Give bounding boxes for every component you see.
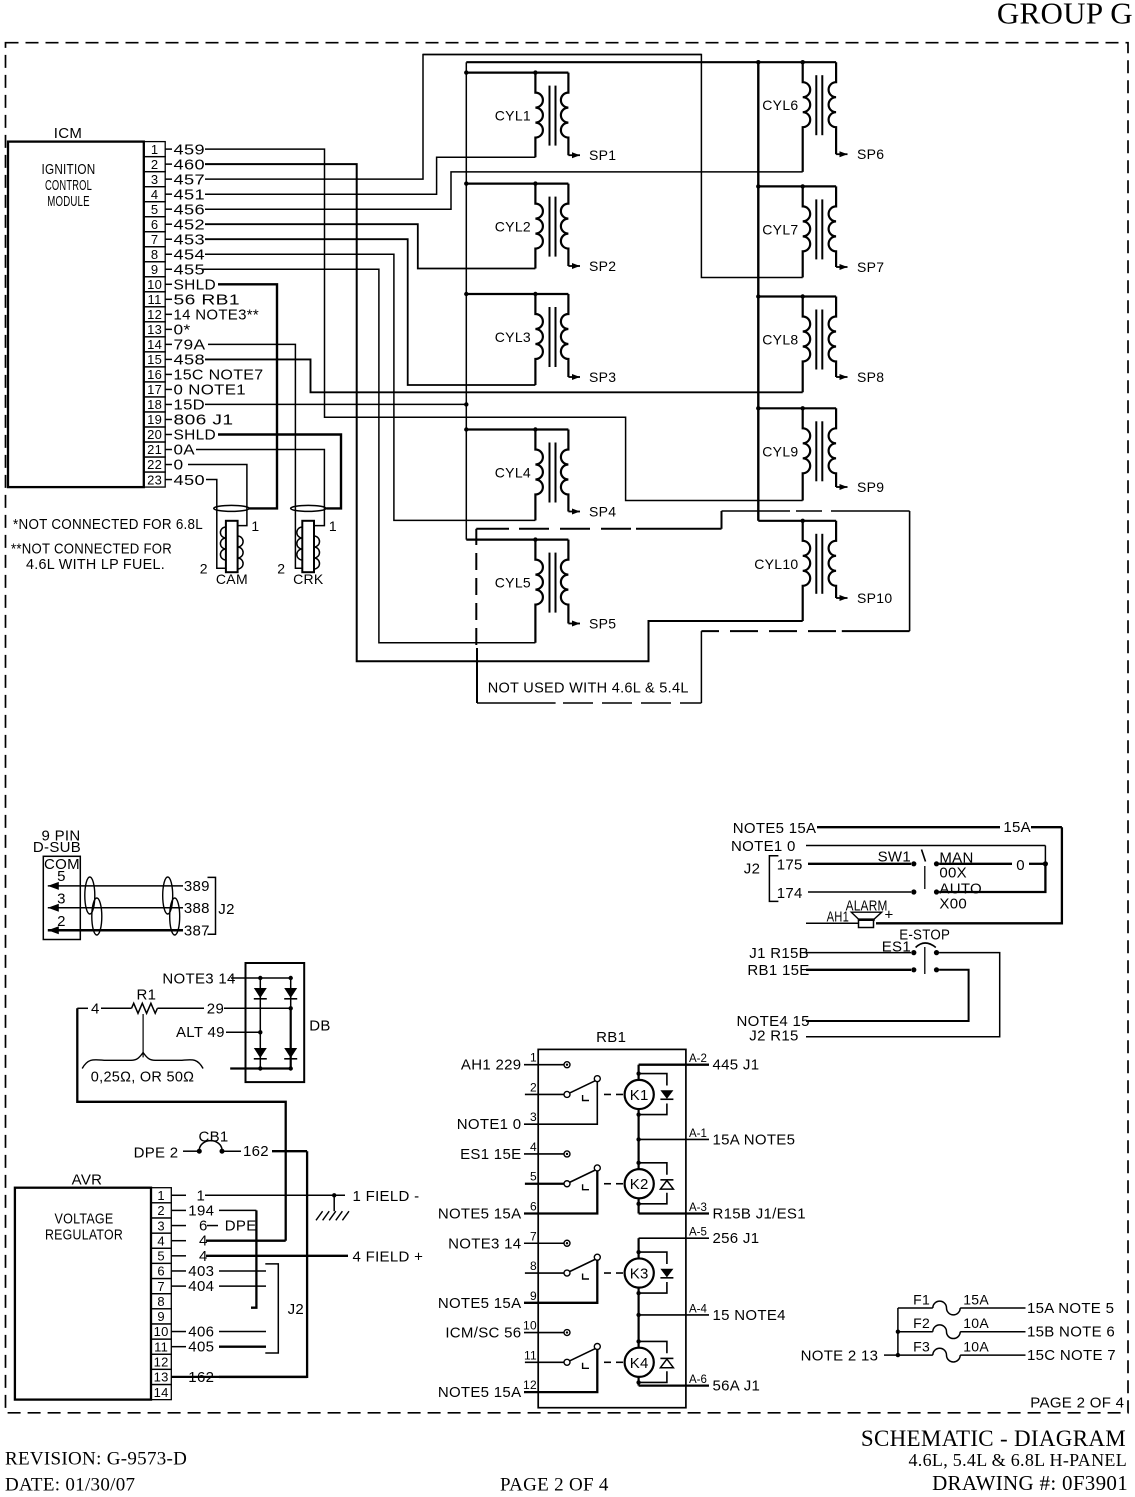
svg-text:PAGE 2 OF 4: PAGE 2 OF 4 bbox=[500, 1475, 609, 1496]
svg-text:A-5: A-5 bbox=[689, 1227, 707, 1239]
svg-text:11: 11 bbox=[154, 1339, 168, 1354]
voltage regulator AVR bbox=[15, 1172, 151, 1400]
svg-text:10: 10 bbox=[523, 1319, 537, 1333]
wire D-SUB 389 bbox=[48, 878, 210, 895]
ignition coil CYL3 bbox=[464, 292, 568, 385]
wire AVR 4 (to R1) bbox=[199, 1233, 286, 1250]
CRK sensor bbox=[277, 505, 337, 586]
svg-text:RB1: RB1 bbox=[596, 1029, 626, 1046]
svg-text:A-4: A-4 bbox=[689, 1303, 708, 1315]
wire AVR 4 FIELD + bbox=[199, 1248, 423, 1266]
flyback diode K2 bbox=[636, 1161, 673, 1206]
ICM pin 16 wire 15C NOTE7 bbox=[144, 367, 264, 384]
svg-text:SP5: SP5 bbox=[589, 616, 616, 632]
svg-text:5: 5 bbox=[157, 1249, 165, 1264]
flyback diode K4 bbox=[636, 1339, 673, 1384]
fuse F3 10A bbox=[898, 1339, 1116, 1364]
svg-text:8: 8 bbox=[530, 1259, 537, 1273]
ICM pin 13 wire 0* bbox=[144, 322, 191, 339]
svg-text:4: 4 bbox=[157, 1233, 165, 1248]
svg-text:NOTE5 15A: NOTE5 15A bbox=[733, 820, 817, 837]
relay contact K4 (pins 11/12) bbox=[523, 1344, 623, 1393]
wire RB1 bus K1/K2 bbox=[636, 1065, 640, 1214]
fuse F2 10A bbox=[898, 1315, 1115, 1340]
diode DB lower-right bbox=[284, 1048, 297, 1058]
wire RB1 bus K3/K4 bbox=[636, 1238, 640, 1385]
ICM pin 21 wire 0A bbox=[144, 442, 324, 526]
svg-text:9: 9 bbox=[157, 1309, 165, 1324]
svg-text:15: 15 bbox=[147, 352, 162, 367]
svg-text:K4: K4 bbox=[630, 1355, 649, 1372]
svg-text:404: 404 bbox=[188, 1278, 214, 1295]
switch SW1 bbox=[878, 849, 982, 913]
spark plug output SP9 bbox=[836, 479, 884, 495]
svg-text:SP3: SP3 bbox=[589, 369, 616, 385]
CAM sensor bbox=[200, 505, 260, 586]
svg-text:10: 10 bbox=[154, 1324, 169, 1339]
spark plug output SP1 bbox=[568, 147, 616, 163]
svg-text:8: 8 bbox=[151, 247, 159, 262]
svg-text:15B NOTE 6: 15B NOTE 6 bbox=[1027, 1324, 1115, 1341]
connector 9-pin D-SUB bbox=[33, 827, 81, 939]
svg-text:CYL10: CYL10 bbox=[754, 556, 798, 572]
spark plug output SP4 bbox=[568, 504, 616, 520]
alarm AH1 bbox=[806, 898, 894, 928]
ICM pin 22 wire 0 bbox=[144, 457, 247, 526]
svg-text:162: 162 bbox=[243, 1143, 269, 1160]
wire AVR 6 DPE bbox=[199, 1218, 257, 1235]
wire J2 174 to SW1 bbox=[777, 885, 911, 902]
relay board RB1 bbox=[538, 1029, 686, 1408]
spark plug output SP8 bbox=[836, 369, 884, 385]
svg-text:00X: 00X bbox=[939, 864, 967, 881]
svg-text:R15B J1/ES1: R15B J1/ES1 bbox=[713, 1206, 806, 1223]
relay contact K2 (pins 5/6) bbox=[524, 1165, 623, 1214]
spark plug output SP5 bbox=[568, 616, 616, 632]
wire D-SUB 387 bbox=[48, 922, 210, 939]
svg-text:J2: J2 bbox=[744, 861, 760, 878]
svg-text:X00: X00 bbox=[939, 895, 967, 912]
svg-text:K2: K2 bbox=[630, 1176, 649, 1193]
AVR pin 14 bbox=[151, 1385, 171, 1400]
spark plug output SP10 bbox=[836, 590, 892, 606]
svg-text:CYL5: CYL5 bbox=[495, 575, 531, 591]
wire NOTE 2 13 feed bbox=[801, 1308, 901, 1364]
svg-text:445 J1: 445 J1 bbox=[713, 1057, 760, 1074]
wire J2 175 to SW1 bbox=[777, 857, 911, 874]
svg-text:J2: J2 bbox=[288, 1301, 304, 1318]
svg-text:3: 3 bbox=[530, 1110, 537, 1124]
svg-text:J2: J2 bbox=[218, 901, 234, 918]
AVR pin 10 wire 406 bbox=[151, 1324, 186, 1339]
svg-text:6: 6 bbox=[157, 1264, 165, 1279]
svg-text:162: 162 bbox=[188, 1369, 214, 1386]
svg-text:REGULATOR: REGULATOR bbox=[45, 1226, 123, 1243]
svg-text:4: 4 bbox=[151, 187, 159, 202]
svg-text:NOTE1 0: NOTE1 0 bbox=[731, 838, 796, 855]
ICM pin 15 wire 458 bbox=[144, 352, 803, 393]
wire ALT 49 bbox=[176, 1024, 262, 1041]
svg-text:NOTE3 14: NOTE3 14 bbox=[448, 1235, 521, 1252]
svg-text:13: 13 bbox=[147, 322, 162, 337]
ignition coil CYL1 bbox=[464, 70, 568, 157]
AVR pin 3 wire 6 bbox=[151, 1218, 186, 1233]
emergency stop ES1 bbox=[882, 926, 950, 974]
ICM pin 18 wire 15D bbox=[144, 397, 466, 414]
svg-text:SP8: SP8 bbox=[857, 369, 884, 385]
AVR pin 5 wire 4 bbox=[151, 1248, 186, 1263]
svg-text:1: 1 bbox=[151, 142, 159, 157]
AVR pin 1 wire 1 bbox=[151, 1188, 186, 1203]
ICM pin 19 wire 806 J1 bbox=[144, 412, 234, 429]
node 15D junction on coil bus bbox=[464, 402, 468, 406]
wire AVR 403 to J2 bbox=[188, 1263, 266, 1280]
svg-text:175: 175 bbox=[777, 857, 803, 874]
svg-text:CYL8: CYL8 bbox=[762, 332, 798, 348]
svg-text:DPE 2: DPE 2 bbox=[134, 1145, 179, 1162]
svg-text:0: 0 bbox=[1016, 857, 1025, 874]
ICM pin 20 wire SHLD bbox=[144, 427, 341, 509]
svg-text:K1: K1 bbox=[630, 1087, 649, 1104]
diode DB lower-left bbox=[254, 1048, 267, 1058]
svg-text:256 J1: 256 J1 bbox=[713, 1230, 760, 1247]
ignition coil CYL8 bbox=[756, 294, 836, 392]
wire top feed bus 457 bbox=[423, 54, 701, 56]
svg-text:J1 R15B: J1 R15B bbox=[749, 945, 809, 962]
RB1 pin 10 terminal bbox=[523, 1319, 570, 1336]
wire left coil bus bbox=[465, 62, 467, 539]
svg-text:12: 12 bbox=[154, 1355, 169, 1370]
svg-text:12: 12 bbox=[147, 307, 162, 322]
wire AVR 406 to J2 bbox=[188, 1324, 266, 1341]
fuse F1 15A bbox=[898, 1292, 1114, 1317]
svg-text:4 FIELD +: 4 FIELD + bbox=[353, 1248, 424, 1265]
svg-text:GROUP G: GROUP G bbox=[997, 0, 1133, 31]
ICM pin 6 wire 452 bbox=[144, 216, 535, 268]
svg-text:F1: F1 bbox=[913, 1292, 930, 1308]
ICM pin 12 wire 14 NOTE3** bbox=[144, 307, 259, 324]
svg-text:CAM: CAM bbox=[216, 571, 248, 587]
svg-text:3: 3 bbox=[151, 172, 159, 187]
svg-text:174: 174 bbox=[777, 885, 803, 902]
wire 4 to AVR pin 4 bbox=[77, 1008, 285, 1240]
svg-text:SCHEMATIC - DIAGRAM: SCHEMATIC - DIAGRAM bbox=[861, 1426, 1126, 1451]
wire AVR 162 bbox=[188, 1369, 307, 1386]
svg-text:6: 6 bbox=[151, 217, 159, 232]
svg-text:11: 11 bbox=[148, 292, 162, 307]
RB1 pin 1 terminal bbox=[524, 1051, 570, 1068]
RB1 terminal A-5 256 J1 bbox=[639, 1227, 760, 1248]
svg-text:7: 7 bbox=[151, 232, 159, 247]
svg-text:15C NOTE 7: 15C NOTE 7 bbox=[1027, 1347, 1116, 1364]
svg-text:8: 8 bbox=[157, 1294, 165, 1309]
brace 0.25 ohm or 50 ohm bbox=[82, 1053, 203, 1086]
connector J2 bracket (AVR) bbox=[265, 1264, 304, 1353]
svg-text:SP4: SP4 bbox=[589, 504, 616, 520]
AVR pin 6 wire 403 bbox=[151, 1263, 186, 1278]
svg-text:9: 9 bbox=[151, 262, 159, 277]
svg-text:11: 11 bbox=[524, 1348, 537, 1362]
svg-text:NOTE5 15A: NOTE5 15A bbox=[438, 1206, 522, 1223]
svg-text:SP9: SP9 bbox=[857, 479, 884, 495]
RB1 pin 4 terminal bbox=[524, 1140, 570, 1157]
svg-text:R1: R1 bbox=[137, 987, 157, 1004]
svg-text:+: + bbox=[885, 907, 894, 924]
svg-text:18: 18 bbox=[147, 397, 162, 412]
svg-text:7: 7 bbox=[530, 1229, 537, 1243]
svg-text:CYL1: CYL1 bbox=[495, 108, 531, 124]
svg-text:15 NOTE4: 15 NOTE4 bbox=[713, 1307, 786, 1324]
flyback diode K3 bbox=[636, 1250, 673, 1295]
svg-text:CYL3: CYL3 bbox=[495, 329, 531, 345]
svg-text:2: 2 bbox=[151, 157, 159, 172]
wire AVR 404 to J2 bbox=[188, 1278, 266, 1295]
svg-text:9: 9 bbox=[530, 1289, 537, 1303]
AVR pin 12 bbox=[151, 1354, 171, 1369]
svg-text:7: 7 bbox=[157, 1279, 165, 1294]
svg-text:13: 13 bbox=[154, 1370, 169, 1385]
svg-text:DPE: DPE bbox=[225, 1218, 257, 1235]
RB1 pin 7 terminal bbox=[524, 1229, 570, 1246]
diode DB upper-right bbox=[284, 988, 297, 998]
svg-text:DB: DB bbox=[309, 1018, 330, 1035]
svg-text:4: 4 bbox=[530, 1140, 537, 1154]
svg-text:SW1: SW1 bbox=[878, 849, 911, 866]
svg-text:15A NOTE 5: 15A NOTE 5 bbox=[1027, 1300, 1114, 1317]
wire D-SUB 388 bbox=[48, 900, 210, 917]
wire right coil bus bbox=[757, 62, 759, 521]
svg-text:DRAWING #: 0F3901: DRAWING #: 0F3901 bbox=[932, 1471, 1128, 1495]
svg-text:1: 1 bbox=[329, 518, 337, 534]
node right bus / CYL6 top junction bbox=[756, 60, 760, 64]
dashed boundary: not used with 4.6L/5.4L region bbox=[476, 511, 909, 703]
AVR pin 13 wire 162 bbox=[151, 1369, 186, 1384]
ICM pin 14 wire 79A bbox=[144, 337, 302, 569]
svg-text:NOT USED WITH 4.6L & 5.4L: NOT USED WITH 4.6L & 5.4L bbox=[488, 680, 689, 697]
svg-text:A-2: A-2 bbox=[689, 1053, 707, 1065]
svg-text:AH1 229: AH1 229 bbox=[461, 1057, 521, 1074]
svg-text:J2 R15: J2 R15 bbox=[749, 1028, 798, 1045]
spark plug output SP2 bbox=[568, 258, 616, 274]
wire AVR 405 to J2 bbox=[188, 1339, 266, 1356]
ignition coil CYL2 bbox=[464, 181, 568, 268]
svg-text:A-3: A-3 bbox=[689, 1202, 707, 1214]
relay contact K3 (pins 8/9) bbox=[524, 1254, 623, 1303]
svg-text:PAGE 2 OF 4: PAGE 2 OF 4 bbox=[1030, 1395, 1124, 1412]
flyback diode K1 bbox=[636, 1071, 673, 1116]
svg-text:1: 1 bbox=[251, 518, 259, 534]
svg-text:IGNITION: IGNITION bbox=[42, 161, 96, 178]
title block bbox=[5, 1426, 1128, 1496]
ignition coil CYL4 bbox=[464, 427, 568, 520]
svg-text:**NOT CONNECTED FOR: **NOT CONNECTED FOR bbox=[11, 541, 172, 558]
relay coil K2 bbox=[625, 1169, 654, 1198]
svg-text:5: 5 bbox=[151, 202, 159, 217]
ICM pin 4 wire 451 bbox=[144, 157, 535, 203]
svg-text:4.6L, 5.4L & 6.8L H-PANEL: 4.6L, 5.4L & 6.8L H-PANEL bbox=[909, 1450, 1128, 1470]
spark plug output SP3 bbox=[568, 369, 616, 385]
svg-text:17: 17 bbox=[147, 382, 162, 397]
wire SW1 AUTO link to 0 node bbox=[939, 864, 1045, 892]
twisted pair shield (left) bbox=[85, 877, 102, 935]
svg-text:29: 29 bbox=[207, 1000, 224, 1017]
RB1 terminal A-6 56A J1 bbox=[639, 1374, 761, 1395]
svg-text:AVR: AVR bbox=[72, 1172, 103, 1189]
svg-text:12: 12 bbox=[523, 1378, 537, 1392]
svg-text:ICM: ICM bbox=[54, 125, 82, 142]
ignition coil CYL5 bbox=[466, 537, 568, 642]
svg-text:A-6: A-6 bbox=[689, 1374, 707, 1386]
svg-text:D-SUB: D-SUB bbox=[33, 839, 81, 856]
AVR pin 2 wire 194 bbox=[151, 1203, 186, 1218]
AVR pin 7 wire 404 bbox=[151, 1279, 186, 1294]
ICM pin 23 wire 450 bbox=[144, 472, 226, 569]
svg-text:CYL2: CYL2 bbox=[495, 219, 531, 235]
wire 162 CB1 to AVR pin 13 bbox=[171, 1151, 307, 1377]
svg-text:DATE: 01/30/07: DATE: 01/30/07 bbox=[5, 1475, 135, 1496]
svg-text:SP7: SP7 bbox=[857, 259, 884, 275]
ICM pin 3 wire 457 bbox=[144, 55, 803, 278]
svg-text:4.6L WITH LP FUEL.: 4.6L WITH LP FUEL. bbox=[26, 556, 165, 573]
wire R1 tap to value brace bbox=[142, 1014, 144, 1057]
svg-text:22: 22 bbox=[147, 457, 162, 472]
svg-text:1: 1 bbox=[530, 1051, 537, 1065]
svg-text:K3: K3 bbox=[630, 1266, 649, 1283]
svg-text:NOTE 2 13: NOTE 2 13 bbox=[801, 1347, 879, 1364]
svg-text:CONTROL: CONTROL bbox=[45, 177, 92, 194]
svg-text:2: 2 bbox=[277, 561, 285, 577]
ICM pin 17 wire 0 NOTE1 bbox=[144, 382, 246, 399]
svg-text:SP6: SP6 bbox=[857, 146, 884, 162]
ICM pin 5 wire 456 bbox=[144, 172, 803, 218]
svg-text:20: 20 bbox=[147, 427, 162, 442]
svg-text:ICM/SC 56: ICM/SC 56 bbox=[445, 1325, 521, 1342]
svg-text:15A NOTE5: 15A NOTE5 bbox=[713, 1131, 796, 1148]
ground (field minus) bbox=[316, 1195, 349, 1220]
svg-text:ALT 49: ALT 49 bbox=[176, 1024, 225, 1041]
ICM pin 8 wire 454 bbox=[144, 246, 535, 520]
svg-text:387: 387 bbox=[184, 922, 210, 939]
wire AVR 1 FIELD - bbox=[197, 1187, 420, 1205]
svg-text:NOTE4 15: NOTE4 15 bbox=[737, 1013, 810, 1030]
connector J2 bracket (SW1) bbox=[744, 856, 779, 902]
svg-text:SP2: SP2 bbox=[589, 258, 616, 274]
svg-text:F3: F3 bbox=[913, 1339, 930, 1355]
svg-text:CYL4: CYL4 bbox=[495, 465, 531, 481]
svg-text:VOLTAGE: VOLTAGE bbox=[55, 1210, 114, 1227]
relay coil K4 bbox=[625, 1348, 654, 1377]
svg-text:2: 2 bbox=[200, 561, 208, 577]
svg-text:A-1: A-1 bbox=[689, 1128, 707, 1140]
circuit breaker CB1 bbox=[134, 1129, 308, 1162]
svg-text:*NOT CONNECTED FOR 6.8L: *NOT CONNECTED FOR 6.8L bbox=[13, 516, 203, 533]
svg-text:CYL6: CYL6 bbox=[762, 97, 798, 113]
svg-text:2: 2 bbox=[157, 1203, 165, 1218]
twisted pair shield (right) bbox=[163, 877, 180, 935]
wire NOTE1 0 bbox=[731, 838, 1045, 864]
wire NOTE3 14 bbox=[162, 971, 293, 988]
ignition coil CYL7 bbox=[756, 184, 836, 277]
ignition coil CYL6 bbox=[466, 60, 836, 172]
op-amp U1 ICM ignition control module bbox=[8, 125, 144, 487]
ICM pin 1 wire 459 bbox=[144, 141, 803, 500]
svg-text:21: 21 bbox=[147, 442, 162, 457]
relay coil K3 bbox=[625, 1258, 654, 1287]
svg-text:NOTE3 14: NOTE3 14 bbox=[162, 971, 235, 988]
RB1 terminal A-2 445 J1 bbox=[639, 1053, 760, 1074]
RB1 terminal A-3 R15B J1/ES1 bbox=[639, 1202, 806, 1223]
svg-text:23: 23 bbox=[147, 472, 162, 487]
wire RB1 15E through ES1 to NOTE4 15 bbox=[737, 962, 969, 1030]
svg-text:389: 389 bbox=[184, 878, 210, 895]
svg-text:450: 450 bbox=[174, 472, 206, 489]
svg-text:SP1: SP1 bbox=[589, 147, 616, 163]
svg-text:56A J1: 56A J1 bbox=[713, 1378, 761, 1395]
wire NOTE5 15A supply bbox=[733, 819, 1062, 923]
svg-text:MODULE: MODULE bbox=[47, 193, 90, 210]
wire AVR 194 bbox=[188, 1202, 256, 1307]
svg-text:388: 388 bbox=[184, 900, 210, 917]
svg-text:6: 6 bbox=[530, 1200, 537, 1214]
resistor R1 bbox=[77, 987, 290, 1018]
svg-text:REVISION: G-9573-D: REVISION: G-9573-D bbox=[5, 1449, 187, 1470]
svg-text:3: 3 bbox=[157, 1218, 165, 1233]
diode bridge DB bbox=[230, 963, 330, 1082]
AVR pin 9 bbox=[151, 1309, 171, 1324]
svg-text:14: 14 bbox=[154, 1385, 169, 1400]
AVR pin 4 wire 4 bbox=[151, 1233, 186, 1248]
wire SW1 MAN to 0 node bbox=[939, 857, 1048, 874]
ICM pin 9 wire 455 bbox=[144, 261, 535, 642]
wire J1 R15B through ES1 to J2 R15 bbox=[749, 945, 999, 1045]
svg-text:15A: 15A bbox=[963, 1292, 989, 1308]
spark plug output SP6 bbox=[836, 146, 884, 162]
connector J2 bracket bbox=[208, 877, 235, 934]
svg-text:1 FIELD -: 1 FIELD - bbox=[353, 1188, 420, 1205]
svg-text:14: 14 bbox=[147, 337, 162, 352]
svg-text:16: 16 bbox=[147, 367, 162, 382]
svg-text:F2: F2 bbox=[913, 1315, 930, 1331]
ICM pin 2 wire 460 bbox=[144, 156, 803, 661]
svg-text:4: 4 bbox=[91, 1000, 100, 1017]
relay contact K1 (pins 2/3) bbox=[524, 1076, 623, 1125]
svg-text:405: 405 bbox=[188, 1339, 214, 1356]
relay coil K1 bbox=[625, 1080, 654, 1109]
ignition coil CYL9 bbox=[756, 406, 836, 500]
RB1 terminal A-1 15A NOTE5 bbox=[639, 1128, 796, 1149]
diode DB upper-left bbox=[254, 988, 267, 998]
ICM pin 10 wire SHLD bbox=[144, 276, 277, 508]
ICM pin 7 wire 453 bbox=[144, 231, 535, 385]
AVR pin 11 wire 405 bbox=[151, 1339, 186, 1354]
svg-text:10A: 10A bbox=[963, 1315, 989, 1331]
svg-text:SP10: SP10 bbox=[857, 590, 892, 606]
svg-text:0,25Ω, OR 50Ω: 0,25Ω, OR 50Ω bbox=[91, 1069, 195, 1086]
svg-text:10A: 10A bbox=[963, 1339, 989, 1355]
svg-text:15A: 15A bbox=[1003, 819, 1031, 836]
svg-text:5: 5 bbox=[530, 1170, 537, 1184]
spark plug output SP7 bbox=[836, 259, 884, 275]
svg-text:CRK: CRK bbox=[293, 571, 324, 587]
svg-text:NOTE5 15A: NOTE5 15A bbox=[438, 1295, 522, 1312]
ICM pin 11 wire 56 RB1 bbox=[144, 292, 240, 309]
svg-text:19: 19 bbox=[147, 412, 162, 427]
AVR pin 8 bbox=[151, 1294, 171, 1309]
svg-text:10: 10 bbox=[147, 277, 162, 292]
svg-text:2: 2 bbox=[530, 1080, 537, 1094]
RB1 terminal A-4 15 NOTE4 bbox=[639, 1303, 786, 1324]
ignition coil CYL10 bbox=[754, 519, 836, 621]
